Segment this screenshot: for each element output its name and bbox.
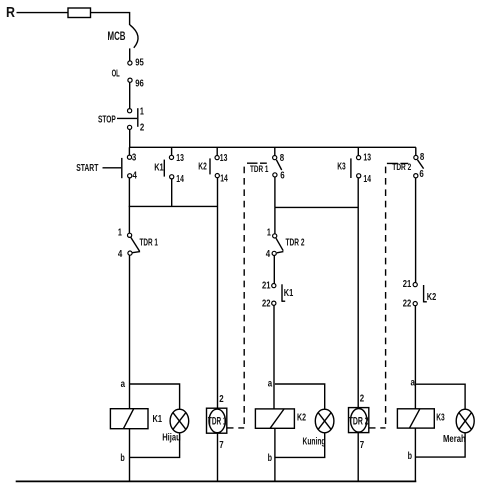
svg-text:4: 4 [266,249,271,260]
svg-text:b: b [408,451,412,462]
wire K3 coil to bottom bus [414,428,416,481]
svg-text:a: a [411,377,416,388]
svg-text:8: 8 [280,153,285,164]
svg-text:TDR 2: TDR 2 [349,416,369,428]
dashed link TDR2 [387,162,408,164]
contact TDR2 8-6 [415,147,417,155]
svg-text:TDR 2: TDR 2 [286,237,305,248]
wire lamp H to b [130,433,180,458]
svg-text:7: 7 [360,440,365,451]
bus2 segment right [275,206,358,208]
svg-text:21: 21 [262,281,271,292]
svg-text:K2: K2 [297,413,306,424]
svg-text:2: 2 [219,394,224,405]
svg-text:2: 2 [360,394,365,405]
svg-text:K3: K3 [337,162,346,173]
wire K2 NC to K3 coil [414,306,416,409]
wire from R to fuse [17,12,69,14]
lamp Merah [456,409,474,433]
coil K3 [397,409,434,428]
svg-text:14: 14 [176,174,184,185]
wire K1 NC to K2 coil [273,305,275,408]
fuse F [68,8,91,18]
wire lamp M to b [415,433,465,457]
svg-text:a: a [121,379,126,390]
wire MCB to OL [129,48,131,60]
wire a to lamp H [130,384,180,410]
svg-text:1: 1 [118,228,122,239]
bus2 segment left [129,205,218,207]
wire a to lamp K [275,384,325,410]
svg-text:START: START [76,163,98,174]
contact TDR1 8-6 [274,147,276,155]
wire fuse to corner [91,13,130,25]
svg-text:Hijau: Hijau [162,433,181,444]
wire TDR2-6 down to K2 NC [415,178,417,283]
svg-text:6: 6 [419,169,424,180]
svg-text:7: 7 [219,440,224,451]
svg-text:6: 6 [280,170,285,181]
svg-text:13: 13 [363,153,371,164]
svg-text:K1: K1 [284,288,294,299]
coil K1 [110,409,148,429]
svg-text:R: R [6,4,15,21]
svg-text:K1: K1 [154,162,164,173]
contact K2 13-14 [216,147,218,155]
svg-text:95: 95 [135,57,144,68]
svg-text:K3: K3 [436,413,445,424]
svg-text:96: 96 [135,79,144,90]
wire TDR1 timed to K1 coil [129,255,131,408]
svg-text:K2: K2 [198,162,207,173]
svg-text:MCB: MCB [108,29,126,43]
timed contact TDR1 1-4 [128,206,130,233]
wire K2 coil to bottom bus [274,428,276,481]
svg-text:TDR 1: TDR 1 [140,237,159,248]
wire TDR2 timed to K1 NC [273,256,275,284]
svg-text:14: 14 [363,174,371,185]
coil K2 [255,409,294,428]
contact K3 13-14 [357,147,359,155]
wire a to lamp M [415,384,465,409]
svg-text:21: 21 [403,279,412,290]
svg-text:3: 3 [132,152,137,163]
svg-text:OL: OL [112,68,121,80]
svg-text:22: 22 [403,299,412,310]
START button NO [128,147,130,155]
wire TDR1 coil to bottom bus [217,433,219,481]
svg-text:1: 1 [267,228,271,239]
contact K1 13-14 [171,147,173,155]
wire OL to STOP [129,82,131,108]
svg-text:K2: K2 [427,292,437,303]
svg-text:2: 2 [140,122,145,133]
svg-text:1: 1 [140,107,144,118]
svg-text:13: 13 [220,153,228,164]
STOP button NC [128,109,132,113]
top bus [129,146,416,148]
svg-text:Kuning: Kuning [303,436,326,447]
bottom bus [16,480,417,482]
svg-text:4: 4 [133,170,138,181]
wire TDR1-6 to bus2b [274,177,276,207]
svg-text:4: 4 [118,249,123,260]
wire START to bus2 [128,178,130,206]
svg-text:22: 22 [262,299,271,310]
wire lamp K to b [275,433,325,458]
OL contact terminal 96 [128,78,132,82]
svg-text:13: 13 [176,153,184,164]
dashed link TDR1 [247,162,267,164]
svg-text:b: b [120,453,124,464]
lamp Kuning [315,409,334,433]
svg-text:14: 14 [220,174,228,185]
svg-text:TDR 1: TDR 1 [208,416,227,428]
svg-text:STOP: STOP [98,114,116,125]
svg-text:K1: K1 [153,414,163,425]
wire TDR2 coil to bottom bus [357,433,359,482]
wire K3-14 down to TDR2 coil [357,178,359,408]
svg-text:Merah: Merah [443,434,466,445]
OL contact terminal 95 [128,61,132,65]
wire K1 coil to bottom bus [129,429,131,482]
lamp Hijau [170,409,189,433]
svg-text:8: 8 [420,152,425,163]
svg-text:a: a [268,379,273,390]
timed contact TDR2 1-4 [274,207,276,233]
svg-text:TDR 1: TDR 1 [250,164,269,175]
wire K2-14 down to TDR1 coil [217,178,219,409]
svg-text:b: b [268,453,272,464]
wire STOP to top bus [129,130,131,148]
MCB breaker symbol [130,25,138,48]
